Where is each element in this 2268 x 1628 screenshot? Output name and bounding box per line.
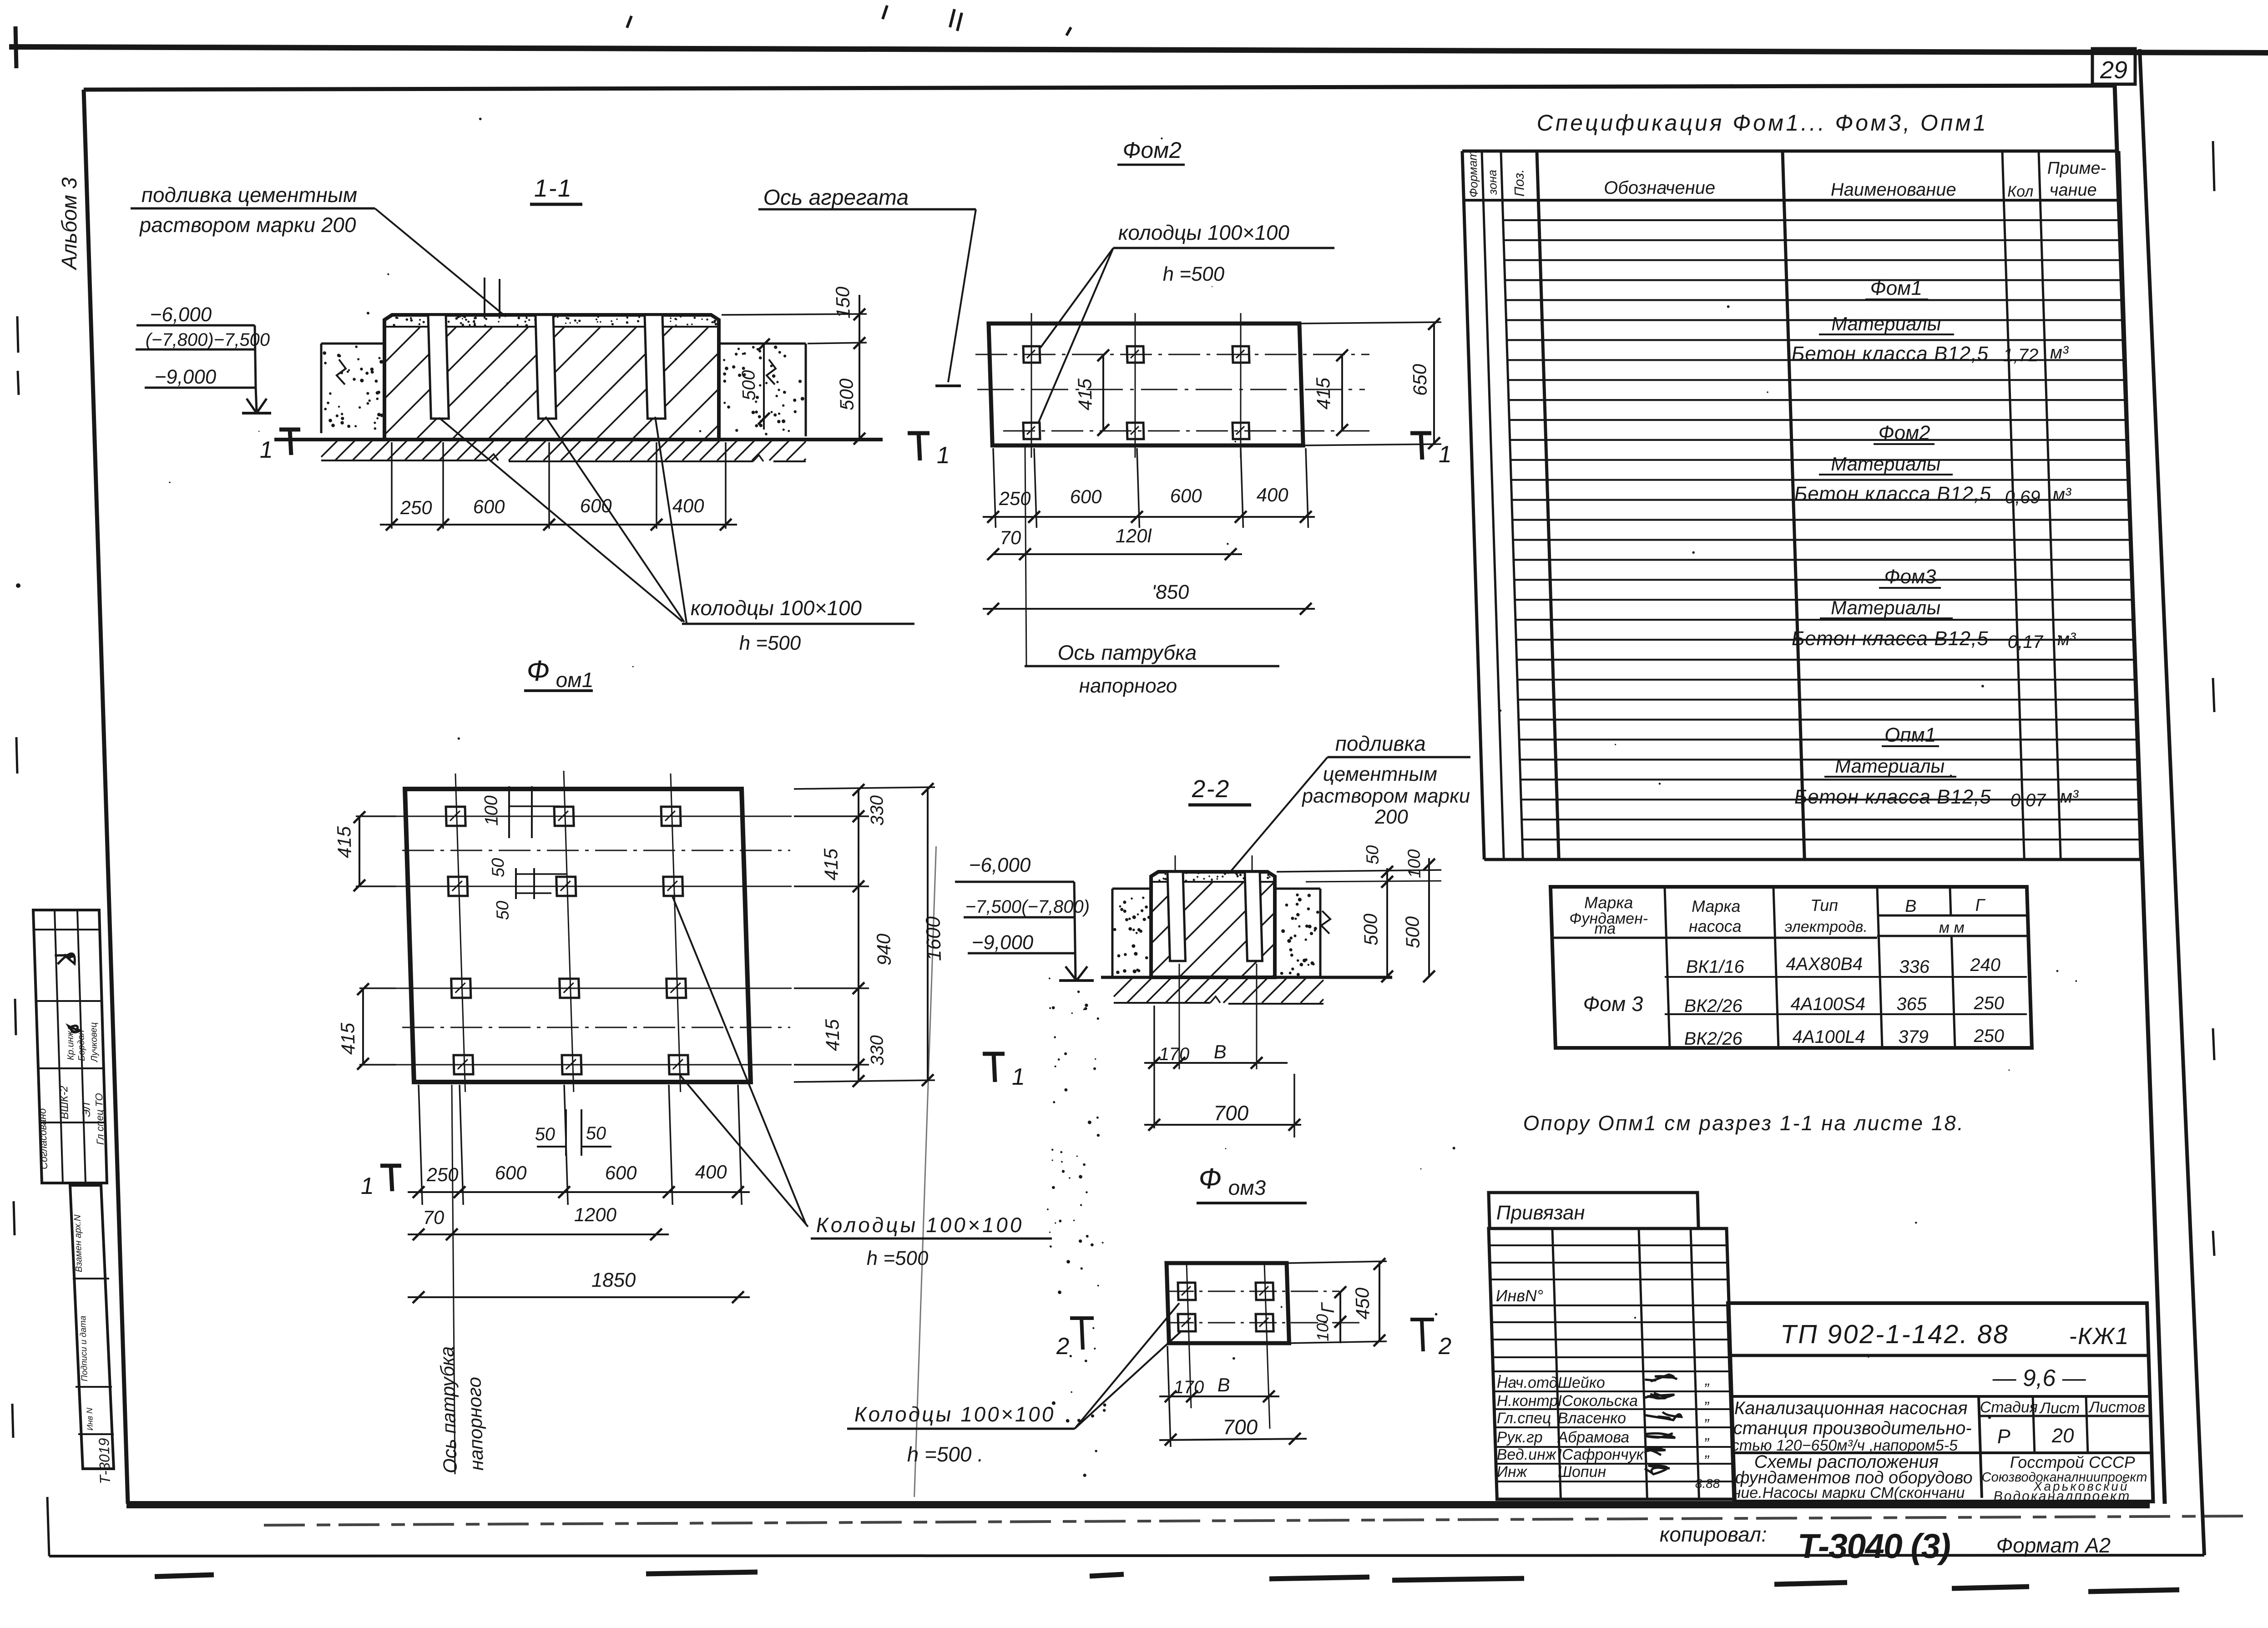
svg-text:Материалы: Материалы	[1831, 313, 1941, 334]
section mark fom3 right	[1410, 1318, 1434, 1321]
svg-text:0,17: 0,17	[2007, 632, 2044, 652]
svg-text:170: 170	[1173, 1377, 1204, 1397]
svg-text:электродв.: электродв.	[1784, 918, 1868, 935]
svg-text:1,72: 1,72	[2003, 345, 2039, 365]
svg-text:Гл спец ТО: Гл спец ТО	[93, 1093, 106, 1145]
fom1 left dim 415 upper	[356, 815, 396, 817]
svg-text:цементным: цементным	[1323, 763, 1438, 785]
svg-text:2: 2	[1056, 1333, 1070, 1360]
podlivka layer strip	[384, 326, 719, 328]
svg-text:1: 1	[1438, 441, 1452, 468]
fom1 dim 100 top	[508, 786, 510, 838]
svg-text:(−7,800)−7,500: (−7,800)−7,500	[145, 330, 270, 350]
svg-text:колодцы 100×100: колодцы 100×100	[690, 596, 862, 620]
svg-text:Материалы: Материалы	[1830, 597, 1941, 618]
block hatch	[381, 327, 721, 440]
svg-text:1: 1	[259, 437, 273, 463]
svg-text:500: 500	[1401, 916, 1424, 948]
svg-text:„: „	[1704, 1390, 1710, 1407]
svg-text:450: 450	[1351, 1287, 1374, 1320]
svg-text:250: 250	[998, 488, 1031, 509]
dimension right 150 and 500	[722, 314, 867, 315]
svg-text:150: 150	[832, 286, 854, 319]
fom1 right dim chain	[794, 815, 869, 817]
block 2-2 outline	[1148, 872, 1278, 977]
svg-text:415: 415	[820, 848, 842, 880]
svg-text:250: 250	[1973, 1026, 2005, 1046]
svg-text:100: 100	[1404, 849, 1424, 878]
svg-text:Поз.: Поз.	[1511, 169, 1527, 197]
svg-text:Спецификация Фом1... Фом3, О: Спецификация Фом1... Фом3, Опм1	[1536, 110, 1988, 136]
fom1 axis dash-dot lines	[402, 850, 790, 851]
svg-text:330: 330	[867, 1035, 888, 1066]
svg-text:200: 200	[1374, 806, 1409, 828]
fom1 dim 1600	[794, 787, 935, 789]
svg-text:'850: '850	[1152, 581, 1190, 603]
svg-text:415: 415	[333, 826, 355, 858]
outer right page border	[2140, 49, 2204, 1555]
svg-text:330: 330	[867, 795, 888, 826]
fom3 leaders	[1071, 1303, 1182, 1429]
svg-text:ние.Насосы марки СМ(скончани: ние.Насосы марки СМ(скончани	[1732, 1484, 1965, 1502]
svg-text:Фом1: Фом1	[1870, 277, 1922, 299]
svg-text:м³: м³	[2050, 343, 2070, 363]
section mark fom1 left	[380, 1164, 401, 1168]
small table grid	[1551, 887, 2032, 1048]
fom3 centerlines	[1167, 1291, 1339, 1292]
right margin dashes	[2213, 141, 2214, 191]
svg-text:Марка: Марка	[1691, 897, 1741, 915]
fom1 row lines	[392, 816, 792, 817]
anchor well slot 3	[645, 315, 665, 419]
svg-text:Г: Г	[1318, 1302, 1338, 1313]
fom1 dim 50 50 below	[565, 1109, 567, 1156]
svg-text:Т-3019: Т-3019	[96, 1438, 113, 1484]
fom1 dim 50 50 small	[515, 868, 517, 899]
svg-text:50: 50	[586, 1123, 606, 1143]
svg-text:м м: м м	[1939, 919, 1965, 936]
svg-text:Г: Г	[1975, 896, 1986, 915]
svg-text:100: 100	[1313, 1314, 1332, 1341]
fom2 dim 415 mid	[1101, 354, 1105, 431]
fold crease line	[896, 846, 955, 1497]
svg-text:Колодцы 100×100: Колодцы 100×100	[854, 1402, 1056, 1426]
left backfill dotted area	[321, 343, 384, 345]
2-2 left dotted area	[1112, 888, 1151, 890]
svg-text:940: 940	[873, 933, 895, 966]
svg-text:50: 50	[493, 901, 513, 920]
svg-text:ИнвN°: ИнвN°	[1495, 1286, 1544, 1305]
svg-text:600: 600	[473, 496, 505, 517]
main title block	[1728, 1303, 2153, 1502]
svg-text:400: 400	[695, 1161, 727, 1183]
fom2 pipe axis line	[1020, 445, 1031, 666]
svg-text:Фом 3: Фом 3	[1583, 992, 1644, 1016]
svg-text:раствором марки: раствором марки	[1301, 785, 1470, 807]
svg-text:Кол: Кол	[2007, 183, 2033, 200]
svg-text:4АХ80В4: 4АХ80В4	[1785, 954, 1863, 974]
svg-text:20: 20	[2051, 1425, 2075, 1447]
svg-text:379: 379	[1898, 1027, 1929, 1047]
svg-text:29: 29	[2100, 56, 2127, 84]
svg-text:1: 1	[360, 1173, 374, 1199]
svg-text:Взамен арх.N: Взамен арх.N	[72, 1214, 84, 1272]
thin bottom page line	[49, 1555, 2204, 1556]
section mark T1 right of 2-2	[983, 1052, 1005, 1056]
fom2 wells	[1023, 346, 1040, 363]
block 2-2 hatch	[1148, 882, 1277, 977]
svg-text:1600: 1600	[922, 916, 945, 961]
svg-text:100: 100	[481, 795, 502, 826]
svg-text:зона: зона	[1485, 170, 1500, 195]
svg-text:Согласовано: Согласовано	[36, 1108, 50, 1169]
svg-text:0,07: 0,07	[2010, 790, 2047, 810]
faded dashed line below frame	[264, 1516, 2243, 1525]
fom1 left dim 415 lower	[359, 987, 396, 989]
svg-text:Шопин: Шопин	[1557, 1463, 1606, 1481]
svg-text:напорного: напорного	[463, 1377, 487, 1471]
frame bottom thick line	[126, 1501, 2150, 1508]
svg-text:2: 2	[1438, 1333, 1452, 1360]
svg-text:Власенко: Власенко	[1557, 1410, 1626, 1427]
svg-text:Бетон класса В12,5: Бетон класса В12,5	[1794, 483, 1992, 505]
svg-text:−6,000: −6,000	[150, 303, 212, 326]
bottom dimension chain 1-1	[389, 442, 394, 529]
svg-text:Колодцы 100×100: Колодцы 100×100	[816, 1213, 1024, 1237]
2-2 backfill break mark	[1321, 911, 1331, 934]
svg-text:h =500 .: h =500 .	[907, 1442, 984, 1466]
svg-text:Ось агрегата: Ось агрегата	[763, 186, 909, 210]
dimension 500 inner	[762, 344, 767, 430]
svg-text:1200: 1200	[574, 1204, 617, 1225]
svg-text:ВШК-2: ВШК-2	[58, 1086, 71, 1119]
svg-text:600: 600	[1070, 486, 1102, 507]
fom1 pipe axis line down	[444, 1085, 463, 1474]
svg-text:ТП 902-1-142. 88: ТП 902-1-142. 88	[1780, 1320, 2010, 1349]
svg-text:-КЖ1: -КЖ1	[2069, 1323, 2130, 1350]
svg-text:Ф: Ф	[1198, 1162, 1222, 1195]
svg-text:„: „	[1704, 1443, 1710, 1461]
svg-text:Привязан: Привязан	[1496, 1202, 1585, 1224]
svg-text:50: 50	[1363, 845, 1383, 865]
svg-text:700: 700	[1213, 1101, 1249, 1125]
svg-text:120l: 120l	[1115, 525, 1152, 546]
svg-text:415: 415	[1074, 378, 1096, 410]
svg-text:1: 1	[1011, 1064, 1025, 1090]
svg-text:700: 700	[1222, 1415, 1258, 1439]
privyazan box	[1489, 1193, 1698, 1229]
svg-text:В: В	[1217, 1374, 1230, 1395]
fom2 bottom dimension chains	[993, 448, 996, 528]
svg-text:500: 500	[835, 378, 858, 410]
svg-text:м³: м³	[2060, 787, 2080, 807]
svg-text:−9,000: −9,000	[154, 366, 217, 388]
2-2 right dims	[1277, 870, 1441, 872]
svg-text:4А100L4: 4А100L4	[1792, 1027, 1865, 1047]
svg-text:8.88: 8.88	[1695, 1476, 1720, 1491]
fom1 wells grid	[446, 807, 465, 826]
svg-text:Подписи и дата: Подписи и дата	[78, 1316, 90, 1381]
svg-text:Госстрой СССР: Госстрой СССР	[2010, 1453, 2135, 1471]
fom2 plan rectangle	[989, 324, 1303, 445]
svg-text:336: 336	[1899, 957, 1930, 977]
svg-text:Ось патрубка: Ось патрубка	[436, 1346, 461, 1473]
svg-text:ЭЛ: ЭЛ	[80, 1102, 93, 1117]
svg-text:Приме-: Приме-	[2047, 159, 2106, 178]
svg-text:600: 600	[605, 1162, 637, 1183]
svg-text:„: „	[1704, 1426, 1710, 1443]
svg-text:240: 240	[1970, 955, 2001, 975]
centerline stubs above block	[483, 278, 485, 319]
svg-text:раствором марки 200: раствором марки 200	[138, 213, 357, 237]
svg-text:Т-3040 (3): Т-3040 (3)	[1797, 1527, 1951, 1566]
fom2 vertical centerlines	[1027, 313, 1036, 458]
svg-text:станция производительно-: станция производительно-	[1733, 1418, 1972, 1438]
svg-text:насоса: насоса	[1688, 917, 1742, 935]
svg-text:1-1: 1-1	[534, 175, 573, 202]
fom1 col centerlines	[455, 774, 465, 1092]
fom1 plan rectangle	[405, 789, 751, 1082]
svg-text:400: 400	[672, 495, 705, 516]
fom2 dim 650 right	[1301, 322, 1441, 324]
svg-text:подливка: подливка	[1335, 732, 1426, 755]
fom2 dim 415 right	[1340, 354, 1344, 431]
2-2 ground hatch	[1113, 977, 1324, 1003]
svg-text:70: 70	[423, 1207, 445, 1228]
svg-text:В: В	[1213, 1041, 1227, 1062]
svg-text:Абрамова: Абрамова	[1556, 1429, 1629, 1446]
svg-text:ВК2/26: ВК2/26	[1684, 1029, 1743, 1049]
2-2 bottom dims	[1151, 1006, 1157, 1128]
svg-text:600: 600	[580, 495, 612, 516]
page number box 29	[2092, 49, 2135, 84]
svg-text:Бетон класса В12,5: Бетон класса В12,5	[1791, 627, 1989, 650]
svg-text:Нач.отд: Нач.отд	[1496, 1374, 1558, 1391]
section mark between 1-1 and fom2	[908, 431, 929, 435]
svg-text:h =500: h =500	[1162, 263, 1225, 285]
fom3 wells	[1178, 1283, 1196, 1300]
section mark fom2 right	[1410, 431, 1431, 435]
right backfill dotted area	[719, 343, 806, 345]
svg-text:1850: 1850	[591, 1269, 636, 1291]
svg-text:Лучковец: Лучковец	[89, 1022, 100, 1063]
ground line	[274, 438, 883, 441]
svg-text:500: 500	[1359, 913, 1382, 945]
svg-text:1: 1	[936, 442, 950, 469]
fom1 bottom dims	[419, 1085, 422, 1205]
fom3 plan rectangle	[1167, 1263, 1289, 1343]
svg-text:250: 250	[399, 497, 433, 518]
svg-text:Формат А2: Формат А2	[1996, 1533, 2111, 1557]
leader os agregata	[943, 209, 980, 382]
svg-text:„: „	[1704, 1371, 1710, 1389]
svg-text:Инж: Инж	[1496, 1463, 1528, 1481]
svg-text:50: 50	[535, 1124, 556, 1144]
svg-text:Фом2: Фом2	[1878, 422, 1930, 444]
leaders to wells label	[439, 418, 682, 622]
svg-text:600: 600	[1170, 485, 1202, 506]
svg-text:Наименование: Наименование	[1830, 180, 1956, 200]
bottom heavy dash marks	[155, 1575, 214, 1577]
svg-text:500: 500	[738, 370, 759, 400]
svg-text:В: В	[1904, 897, 1917, 916]
svg-text:м³: м³	[2057, 629, 2077, 649]
svg-text:250: 250	[426, 1164, 459, 1185]
section mark 1 left	[279, 428, 300, 432]
svg-text:Альбом 3: Альбом 3	[57, 177, 81, 271]
svg-text:Тип: Тип	[1810, 896, 1839, 915]
leader to block top	[375, 208, 506, 317]
elevation arrow	[247, 399, 257, 413]
anchor well slot 2	[535, 315, 556, 419]
svg-text:„: „	[1704, 1407, 1710, 1424]
ground strip bottom edges	[321, 460, 487, 461]
svg-text:Р: Р	[1997, 1426, 2011, 1448]
anchor well slot 1	[428, 315, 449, 419]
leaders to wells fom2	[1038, 248, 1116, 348]
svg-text:Вед.инж: Вед.инж	[1496, 1446, 1557, 1463]
svg-text:70: 70	[1000, 527, 1022, 548]
svg-text:колодцы 100×100: колодцы 100×100	[1118, 221, 1290, 244]
svg-text:Канализационная насосная: Канализационная насосная	[1734, 1398, 1968, 1418]
svg-text:подливка цементным: подливка цементным	[141, 183, 358, 207]
2-2 right dotted area	[1275, 888, 1320, 890]
svg-text:Фом2: Фом2	[1122, 137, 1182, 163]
svg-text:Н.контр: Н.контр	[1496, 1392, 1558, 1410]
svg-text:170: 170	[1159, 1044, 1190, 1064]
svg-text:h =500: h =500	[866, 1247, 929, 1269]
svg-text:Кр.инж: Кр.инж	[65, 1030, 76, 1060]
svg-text:650: 650	[1409, 364, 1431, 396]
drawing frame	[84, 86, 2115, 90]
svg-text:чание: чание	[2049, 181, 2097, 200]
svg-text:Стадия: Стадия	[1980, 1399, 2038, 1416]
svg-text:Фом3: Фом3	[1884, 566, 1937, 588]
ground hatch strip	[321, 440, 806, 460]
svg-text:Инв N: Инв N	[85, 1407, 95, 1431]
svg-text:Рук.гр: Рук.гр	[1496, 1429, 1543, 1446]
svg-text:та: та	[1594, 920, 1616, 937]
svg-text:Ось патрубка: Ось патрубка	[1057, 641, 1197, 664]
svg-text:−6,000: −6,000	[969, 854, 1031, 876]
svg-text:Шейко: Шейко	[1557, 1374, 1605, 1391]
svg-text:ВК2/26: ВК2/26	[1684, 996, 1743, 1016]
svg-text:415: 415	[821, 1019, 844, 1051]
2-2 anchor slots	[1167, 872, 1185, 961]
svg-text:Ф: Ф	[526, 654, 550, 687]
svg-text:365: 365	[1896, 994, 1928, 1014]
svg-text:ом1: ом1	[556, 668, 594, 692]
svg-text:Опору Опм1 см разрез 1-1: Опору Опм1 см разрез 1-1 на листе 18.	[1523, 1111, 1965, 1135]
left stamp upper block	[33, 910, 107, 1183]
svg-text:Лист: Лист	[2039, 1400, 2080, 1417]
svg-text:Бордан: Бордан	[76, 1030, 87, 1061]
svg-text:50: 50	[489, 858, 508, 877]
fom3 bottom dims	[1167, 1346, 1171, 1447]
svg-text:600: 600	[495, 1162, 527, 1183]
svg-text:Формат: Формат	[1465, 151, 1480, 197]
svg-text:Бетон класса В12,5: Бетон класса В12,5	[1794, 786, 1992, 808]
svg-text:Материалы: Материалы	[1834, 755, 1945, 777]
svg-text:−7,500(−7,800): −7,500(−7,800)	[965, 897, 1090, 917]
svg-text:ІСокольска: ІСокольска	[1557, 1392, 1638, 1410]
scan top edge line	[9, 47, 2268, 53]
svg-text:400: 400	[1256, 484, 1289, 506]
svg-text:Обозначение: Обозначение	[1604, 178, 1716, 198]
svg-text:Материалы: Материалы	[1830, 453, 1941, 475]
svg-text:ВК1/16: ВК1/16	[1686, 957, 1745, 977]
foundation block 1-1 outline	[381, 315, 722, 440]
leader podlivka 2-2	[1228, 757, 1331, 871]
svg-text:h =500: h =500	[739, 632, 802, 654]
svg-text:Опм1: Опм1	[1884, 724, 1936, 746]
svg-text:Бетон класса В12,5: Бетон класса В12,5	[1791, 343, 1989, 365]
left stamp lower block	[70, 1185, 114, 1469]
fom3 dim 450	[1288, 1261, 1387, 1263]
svg-text:м³: м³	[2052, 485, 2072, 505]
fom3 dim G and 100	[1339, 1291, 1342, 1343]
left margin marks	[15, 26, 16, 68]
svg-text:Марка: Марка	[1584, 893, 1633, 912]
spec table grid	[1462, 150, 2119, 153]
svg-text:копировал:: копировал:	[1659, 1522, 1768, 1546]
svg-text:250: 250	[1973, 993, 2005, 1013]
svg-text:−9,000: −9,000	[971, 931, 1034, 954]
title block left stamp grid	[1489, 1229, 1735, 1499]
fom2 unit axis dash-dot	[977, 389, 1365, 390]
svg-text:напорного: напорного	[1079, 675, 1177, 697]
svg-text:Водоканалпроект: Водоканалпроект	[1993, 1489, 2131, 1504]
2-2 ground line	[1101, 976, 1392, 979]
speckle band	[159, 118, 2091, 1477]
svg-text:ом3: ом3	[1228, 1176, 1267, 1199]
backfill break mark left	[336, 359, 346, 384]
svg-text:415: 415	[1312, 377, 1334, 410]
fom1 elevation arrow	[1066, 966, 1076, 981]
fom1 leaders to wells label	[672, 896, 806, 1225]
svg-text:2-2: 2-2	[1191, 775, 1231, 803]
fom2 row centerlines dash-dot	[975, 354, 1369, 355]
svg-text:Гл.спец: Гл.спец	[1496, 1410, 1551, 1427]
backfill break mark right	[766, 359, 776, 384]
svg-text:415: 415	[337, 1022, 359, 1055]
svg-text:4А100S4: 4А100S4	[1790, 994, 1866, 1014]
svg-text:Листов: Листов	[2088, 1399, 2146, 1416]
svg-text:— 9,6 —: — 9,6 —	[1992, 1365, 2087, 1391]
svg-text:ІСафрончук: ІСафрончук	[1557, 1446, 1645, 1463]
top small specks	[627, 16, 631, 28]
svg-text:0,69: 0,69	[2005, 487, 2041, 507]
